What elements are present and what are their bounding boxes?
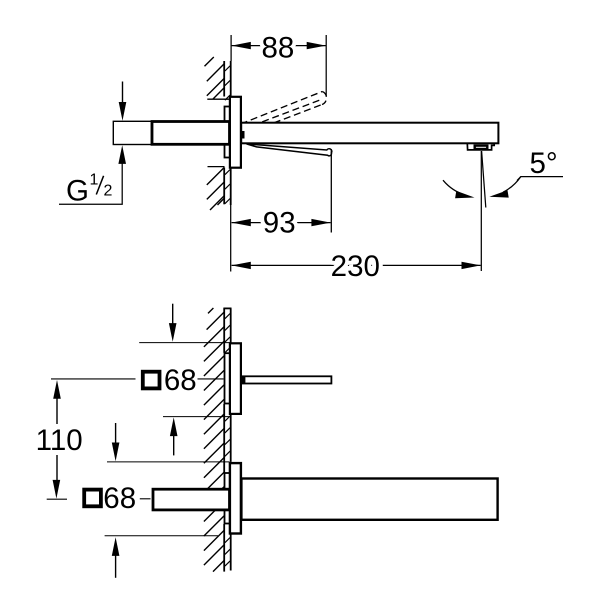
label G 1/2 — [66, 172, 113, 208]
upper flange bottom view — [225, 353, 231, 403]
dimension 110 lower arrow — [53, 455, 61, 499]
svg-text:5°: 5° — [530, 147, 558, 180]
dimension 230 line — [232, 264, 481, 266]
G 1/2 leader line and arrow — [59, 164, 122, 205]
svg-text:110: 110 — [36, 424, 83, 457]
spout top-view — [241, 123, 498, 144]
wall/plate extension line down to 230 — [230, 205, 232, 272]
dimension 88 right arrowhead — [307, 42, 326, 49]
dimension 93 line — [232, 222, 331, 224]
5 degree swivel arc — [443, 180, 466, 195]
dimension 230 right arrowhead — [462, 262, 481, 269]
wall hatching bottom view — [204, 308, 224, 572]
wall hatch boundary line upper — [207, 98, 230, 100]
escutcheon flange top-view — [225, 107, 231, 158]
upper wall plate bottom view — [230, 343, 241, 414]
wall top cap bottom view — [223, 307, 231, 309]
spout outlet aerator housing — [467, 143, 494, 150]
svg-text:93: 93 — [263, 206, 296, 239]
wall line left bottom view — [223, 308, 225, 571]
wall plate top-view — [230, 97, 241, 168]
dimension 110 upper arrow — [53, 380, 61, 424]
lower supply pipe bottom view — [153, 489, 230, 510]
arc arrowhead right — [489, 190, 508, 197]
svg-text:G: G — [66, 175, 89, 208]
lever pivot nub top-view — [241, 131, 244, 139]
thin extension line lower plate top edge — [107, 461, 230, 463]
lever bar pivot nub — [242, 377, 246, 383]
5 degree leader line — [517, 177, 563, 181]
lower flange bottom view — [225, 473, 231, 524]
wall channel ticks bottom view — [225, 314, 230, 567]
square symbol upper — [143, 372, 160, 389]
spout bottom view — [241, 479, 497, 520]
aerator insert — [475, 146, 488, 149]
wall hatch boundary line lower — [208, 166, 225, 168]
thin extension line lower plate bottom edge — [105, 535, 218, 537]
wall line left, top-view — [223, 61, 225, 204]
water stream 5 degree tilted line — [482, 151, 486, 208]
arc arrowhead left — [455, 191, 474, 198]
dimension 88 line — [232, 45, 326, 47]
supply pipe thin section G1/2 — [113, 121, 151, 144]
leader from label 68 to wall — [198, 378, 224, 380]
svg-text:68: 68 — [164, 364, 197, 397]
wall line right, top-view — [230, 61, 232, 205]
svg-text:230: 230 — [331, 250, 380, 283]
water stream vertical line / 230 extension — [480, 151, 482, 271]
lever closed position blade — [247, 144, 332, 156]
svg-text:68: 68 — [103, 482, 136, 515]
dimension 93 right extension line — [330, 149, 332, 232]
arrow up to lower plate bottom edge — [112, 537, 120, 578]
arrow to pipe top edge — [122, 82, 124, 105]
lower wall plate bottom view — [230, 463, 241, 533]
lever bar bottom view — [241, 376, 331, 383]
supply pipe coupling nut — [152, 122, 230, 145]
wall hatching top-view upper section — [205, 57, 231, 100]
svg-text:2: 2 — [104, 183, 113, 200]
svg-text:1: 1 — [90, 172, 99, 189]
dimension 88 left arrowhead — [232, 42, 251, 49]
thin extension line plate top edge — [139, 342, 230, 344]
dimension 93 right arrowhead — [311, 219, 330, 226]
square symbol lower — [84, 490, 101, 507]
leader from lower label 68 to pipe — [140, 498, 151, 500]
tick at lower centerline for 110 — [47, 498, 67, 500]
arrow up to upper plate bottom edge — [170, 417, 178, 455]
dashed lever raised position — [241, 92, 327, 135]
centerline upper unit — [51, 378, 136, 380]
dimension 88 extension line left — [230, 35, 232, 61]
wall hatching top-view lower section — [207, 168, 230, 211]
wall line right bottom view — [230, 308, 232, 570]
dimension 93 left arrowhead — [232, 219, 251, 226]
dimension 88 extension line right — [325, 35, 327, 97]
thin extension line upper plate bottom edge — [163, 416, 230, 418]
arrow down to lower plate top edge — [112, 423, 120, 461]
arrow down to upper plate top edge — [169, 304, 177, 342]
svg-text:88: 88 — [261, 31, 294, 64]
dimension 230 left arrowhead — [232, 262, 251, 269]
